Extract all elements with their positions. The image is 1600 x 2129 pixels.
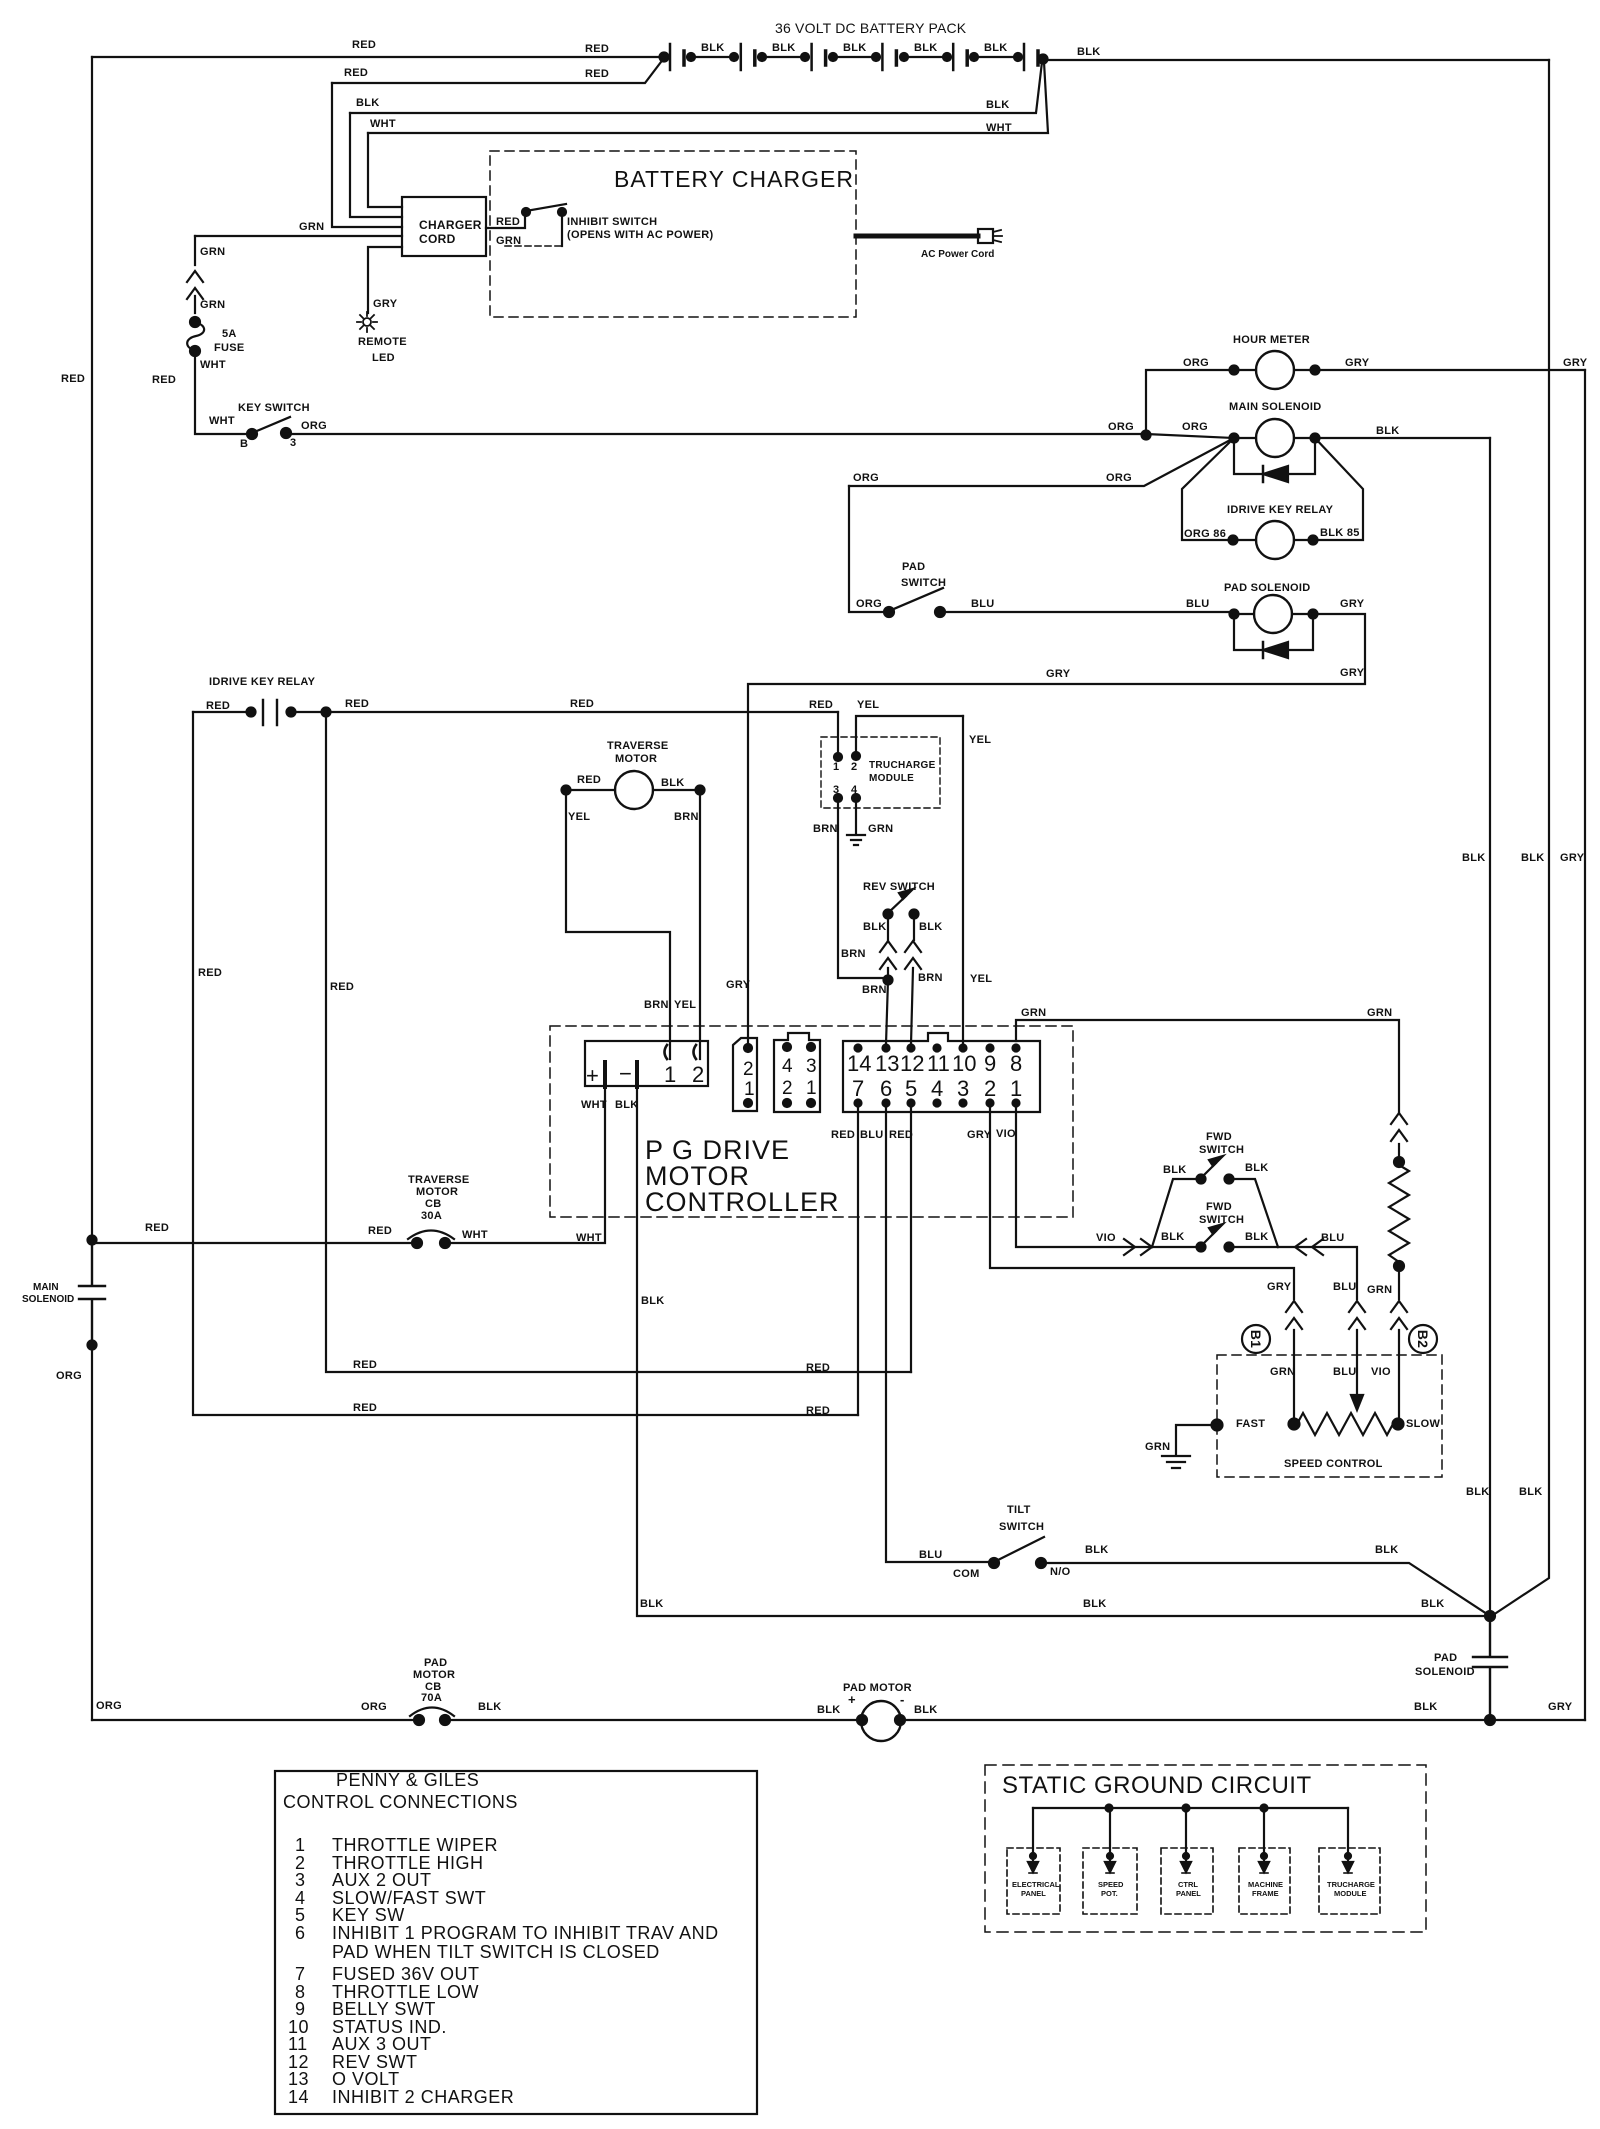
svg-text:RED: RED bbox=[152, 374, 176, 386]
svg-text:MOTOR: MOTOR bbox=[413, 1669, 455, 1681]
wire RED into charger cord bbox=[332, 83, 402, 227]
svg-text:MAIN: MAIN bbox=[33, 1282, 59, 1293]
svg-text:RED: RED bbox=[344, 67, 368, 79]
wire WHT charger feed bbox=[368, 62, 1048, 133]
svg-text:THROTTLE WIPER: THROTTLE WIPER bbox=[332, 1835, 498, 1855]
svg-text:YEL: YEL bbox=[970, 973, 992, 985]
svg-text:BLK: BLK bbox=[1245, 1162, 1269, 1174]
svg-text:FRAME: FRAME bbox=[1252, 1889, 1279, 1898]
svg-text:RED: RED bbox=[145, 1222, 169, 1234]
speed pot dashed box bbox=[1083, 1848, 1137, 1914]
svg-text:9: 9 bbox=[295, 1999, 306, 2019]
svg-text:BLK: BLK bbox=[1521, 852, 1545, 864]
wire left rev switch with connector chevrons bbox=[887, 914, 889, 980]
svg-text:BLK 85: BLK 85 bbox=[1320, 527, 1360, 539]
svg-text:ORG: ORG bbox=[853, 472, 879, 484]
svg-text:4: 4 bbox=[782, 1056, 793, 1077]
svg-text:GRY: GRY bbox=[1548, 1701, 1573, 1713]
wire WHT fuse to key switch bbox=[195, 351, 252, 434]
wire BLK main solenoid to right bbox=[1315, 437, 1490, 439]
wire BLU wiper into speed control bbox=[1356, 1330, 1358, 1398]
svg-text:GRN: GRN bbox=[1367, 1007, 1392, 1019]
svg-text:RED: RED bbox=[496, 216, 520, 228]
svg-text:GRY: GRY bbox=[1267, 1281, 1292, 1293]
svg-text:1: 1 bbox=[664, 1062, 676, 1087]
svg-text:RED: RED bbox=[345, 698, 369, 710]
svg-text:2: 2 bbox=[692, 1062, 704, 1087]
svg-text:BLK: BLK bbox=[661, 777, 685, 789]
svg-text:BLK: BLK bbox=[1519, 1486, 1543, 1498]
svg-text:TRAVERSE: TRAVERSE bbox=[607, 740, 668, 752]
wire GRN trucharge pin4 to ground bbox=[855, 798, 857, 834]
svg-text:RED: RED bbox=[206, 700, 230, 712]
pin bottom dots bbox=[855, 1100, 862, 1107]
svg-text:GRN: GRN bbox=[200, 246, 225, 258]
wire GRN pin8 to resistor chain bbox=[1016, 1020, 1399, 1112]
svg-text:7: 7 bbox=[295, 1964, 306, 1984]
svg-text:O VOLT: O VOLT bbox=[332, 2069, 400, 2089]
svg-text:GRN: GRN bbox=[1021, 1007, 1046, 1019]
svg-text:MACHINE: MACHINE bbox=[1248, 1880, 1283, 1889]
diode D2 pad solenoid bbox=[1234, 614, 1313, 650]
svg-text:2: 2 bbox=[743, 1059, 754, 1080]
svg-text:RED: RED bbox=[330, 981, 354, 993]
svg-text:GRY: GRY bbox=[1340, 667, 1365, 679]
svg-text:BLK: BLK bbox=[478, 1701, 502, 1713]
wire WHT into charger cord bbox=[368, 133, 402, 207]
svg-text:BLK: BLK bbox=[986, 99, 1010, 111]
svg-text:BLK: BLK bbox=[356, 97, 380, 109]
svg-text:GRN: GRN bbox=[868, 823, 893, 835]
svg-text:SPEED CONTROL: SPEED CONTROL bbox=[1284, 1458, 1383, 1470]
svg-text:RED: RED bbox=[806, 1362, 830, 1374]
ground drop electrical panel bbox=[1032, 1808, 1034, 1862]
B2 terminal circle bbox=[1409, 1325, 1437, 1353]
single connector 2/1 bbox=[733, 1038, 757, 1111]
svg-text:WHT: WHT bbox=[209, 415, 235, 427]
wire BRN traverse motor to controller pin2 bbox=[699, 790, 701, 1059]
svg-text:ORG 86: ORG 86 bbox=[1184, 528, 1226, 540]
wire GRY pad solenoid loop to connector bbox=[748, 614, 1365, 1044]
svg-text:IDRIVE KEY RELAY: IDRIVE KEY RELAY bbox=[209, 676, 316, 688]
inhibit switch bbox=[522, 208, 530, 216]
svg-text:5: 5 bbox=[905, 1076, 917, 1101]
svg-text:PAD: PAD bbox=[902, 561, 925, 573]
wire BLK battery jumper 4 bbox=[900, 53, 908, 61]
battery B6 plates bbox=[1023, 44, 1026, 70]
svg-text:BLK: BLK bbox=[772, 42, 796, 54]
svg-text:BLK: BLK bbox=[1414, 1701, 1438, 1713]
svg-text:INHIBIT SWITCH: INHIBIT SWITCH bbox=[567, 216, 657, 228]
ground drop ctrl panel bbox=[1185, 1808, 1187, 1862]
svg-text:YEL: YEL bbox=[568, 811, 590, 823]
svg-text:BLU: BLU bbox=[1186, 598, 1210, 610]
wire BLK from - pin down and right bbox=[637, 1087, 1490, 1616]
svg-text:BLK: BLK bbox=[1462, 852, 1486, 864]
speed control potentiometer bbox=[1289, 1419, 1300, 1430]
svg-text:GRN: GRN bbox=[1145, 1441, 1170, 1453]
svg-text:BLK: BLK bbox=[843, 42, 867, 54]
svg-text:HOUR METER: HOUR METER bbox=[1233, 334, 1310, 346]
svg-text:7: 7 bbox=[852, 1076, 864, 1101]
svg-text:GRN: GRN bbox=[200, 299, 225, 311]
svg-text:BRN: BRN bbox=[644, 999, 669, 1011]
svg-text:PAD SOLENOID: PAD SOLENOID bbox=[1224, 582, 1311, 594]
battery charger dashed box bbox=[490, 151, 856, 317]
svg-text:3: 3 bbox=[957, 1076, 969, 1101]
svg-text:TRAVERSE: TRAVERSE bbox=[408, 1174, 469, 1186]
svg-text:2: 2 bbox=[782, 1078, 793, 1099]
svg-text:FAST: FAST bbox=[1236, 1418, 1265, 1430]
svg-text:11: 11 bbox=[288, 2034, 308, 2054]
svg-text:RED: RED bbox=[585, 68, 609, 80]
wire BLK battery jumper 3 bbox=[829, 53, 837, 61]
svg-text:ORG: ORG bbox=[856, 598, 882, 610]
trucharge module dashed box (ground) bbox=[1319, 1848, 1380, 1914]
svg-text:CONTROL CONNECTIONS: CONTROL CONNECTIONS bbox=[283, 1792, 518, 1812]
svg-text:BLK: BLK bbox=[1085, 1544, 1109, 1556]
svg-text:BLU: BLU bbox=[971, 598, 995, 610]
svg-text:BLK: BLK bbox=[1163, 1164, 1187, 1176]
pin 1 receptacle bbox=[665, 1045, 668, 1059]
svg-text:RED: RED bbox=[353, 1402, 377, 1414]
wire ORG junction up to hour meter bbox=[1146, 370, 1234, 435]
svg-text:8: 8 bbox=[1010, 1051, 1022, 1076]
svg-text:ORG: ORG bbox=[1183, 357, 1209, 369]
svg-text:BLK: BLK bbox=[919, 921, 943, 933]
wire right rev switch to pin12 with chevrons bbox=[911, 914, 914, 1044]
svg-text:SOLENOID: SOLENOID bbox=[22, 1294, 74, 1305]
ground drop speed pot bbox=[1109, 1808, 1111, 1862]
svg-text:AUX 3 OUT: AUX 3 OUT bbox=[332, 2034, 432, 2054]
svg-text:B1: B1 bbox=[1248, 1330, 1264, 1349]
svg-text:BLK: BLK bbox=[914, 42, 938, 54]
svg-text:BLK: BLK bbox=[914, 1704, 938, 1716]
svg-text:ORG: ORG bbox=[361, 1701, 387, 1713]
wire GRN into speed control bbox=[1398, 1330, 1400, 1424]
svg-text:36 VOLT DC BATTERY PACK: 36 VOLT DC BATTERY PACK bbox=[775, 20, 967, 36]
wire BLK right border vertical bbox=[1490, 60, 1549, 1617]
svg-text:BRN: BRN bbox=[674, 811, 699, 823]
wire GRN down-left with connector chevrons bbox=[194, 236, 196, 313]
svg-text:B2: B2 bbox=[1415, 1330, 1431, 1349]
ground drop trucharge module bbox=[1347, 1808, 1349, 1862]
wire ORG bottom left bbox=[92, 1719, 419, 1721]
svg-text:BLK: BLK bbox=[984, 42, 1008, 54]
svg-text:BRN: BRN bbox=[918, 972, 943, 984]
trucharge pin 1 bbox=[834, 753, 842, 761]
wire ORG down to pad switch bbox=[849, 486, 889, 612]
svg-text:GRN: GRN bbox=[299, 221, 324, 233]
svg-text:FWD: FWD bbox=[1206, 1131, 1232, 1143]
svg-text:13: 13 bbox=[875, 1051, 899, 1076]
svg-text:PAD: PAD bbox=[424, 1657, 447, 1669]
wire GRN into charger cord bbox=[195, 235, 402, 237]
svg-text:2: 2 bbox=[851, 761, 857, 773]
node ORG junction bbox=[1142, 431, 1151, 440]
svg-text:INHIBIT 1 PROGRAM TO INHIBIT T: INHIBIT 1 PROGRAM TO INHIBIT TRAV AND bbox=[332, 1923, 719, 1943]
node battery + junction bbox=[660, 53, 669, 62]
svg-text:2: 2 bbox=[984, 1076, 996, 1101]
svg-text:CB: CB bbox=[425, 1198, 442, 1210]
power connector block bbox=[585, 1041, 708, 1086]
wire BLU from fwd switches with chevrons bbox=[1278, 1247, 1357, 1299]
svg-text:SWITCH: SWITCH bbox=[1199, 1144, 1244, 1156]
svg-text:13: 13 bbox=[288, 2069, 309, 2089]
wire RED inhibit switch pigtail bbox=[486, 213, 525, 228]
svg-text:SOLENOID: SOLENOID bbox=[1415, 1666, 1475, 1678]
wire GRY hour meter to right border bbox=[1315, 369, 1585, 371]
svg-text:−: − bbox=[619, 1061, 632, 1086]
wire GRY bottom right corner bbox=[1490, 1719, 1585, 1721]
svg-text:RED: RED bbox=[831, 1129, 855, 1141]
svg-text:BLK: BLK bbox=[641, 1295, 665, 1307]
svg-text:1: 1 bbox=[744, 1079, 755, 1100]
svg-text:+: + bbox=[586, 1063, 599, 1088]
wire ORG left border to bottom bbox=[91, 1345, 93, 1720]
svg-text:WHT: WHT bbox=[576, 1232, 602, 1244]
svg-text:WHT: WHT bbox=[370, 118, 396, 130]
node battery - terminal bbox=[1039, 55, 1048, 64]
svg-text:ORG: ORG bbox=[96, 1700, 122, 1712]
svg-text:1: 1 bbox=[833, 761, 839, 773]
svg-text:RED: RED bbox=[806, 1405, 830, 1417]
wire BLU pad switch to pad solenoid bbox=[940, 612, 1234, 614]
svg-text:WHT: WHT bbox=[581, 1099, 607, 1111]
svg-text:ORG: ORG bbox=[1108, 421, 1134, 433]
svg-text:SWITCH: SWITCH bbox=[999, 1521, 1044, 1533]
svg-text:SPEED: SPEED bbox=[1098, 1880, 1124, 1889]
wire BLK battery jumper 2 bbox=[758, 53, 766, 61]
svg-text:11: 11 bbox=[927, 1051, 950, 1076]
svg-text:CORD: CORD bbox=[419, 232, 456, 246]
node speed control chassis bbox=[1212, 1420, 1223, 1431]
wire GRN to ground bbox=[1176, 1425, 1217, 1455]
svg-text:6: 6 bbox=[295, 1923, 306, 1943]
svg-text:(OPENS WITH AC POWER): (OPENS WITH AC POWER) bbox=[567, 229, 713, 241]
svg-text:CHARGER: CHARGER bbox=[419, 218, 482, 232]
svg-text:1: 1 bbox=[806, 1078, 817, 1099]
svg-text:14: 14 bbox=[847, 1051, 871, 1076]
svg-text:INHIBIT 2 CHARGER: INHIBIT 2 CHARGER bbox=[332, 2087, 514, 2107]
svg-text:BATTERY CHARGER: BATTERY CHARGER bbox=[614, 166, 854, 192]
wire GRN resistor to speed control with chevrons bbox=[1398, 1266, 1400, 1299]
wire YEL vertical to pin10 bbox=[962, 716, 964, 1044]
PG drive motor controller dashed box bbox=[550, 1026, 1073, 1217]
B1 terminal circle bbox=[1242, 1325, 1270, 1353]
svg-text:3: 3 bbox=[295, 1870, 306, 1890]
svg-text:FUSE: FUSE bbox=[214, 342, 245, 354]
wire RED charger feed bbox=[332, 58, 664, 83]
wire BLK into charger cord bbox=[350, 113, 402, 217]
svg-text:BLK: BLK bbox=[1376, 425, 1400, 437]
connector chevrons GRY BLU GRN bbox=[1286, 1301, 1302, 1329]
wire RED CB to main solenoid top bbox=[92, 1242, 417, 1244]
svg-text:BLK: BLK bbox=[1466, 1486, 1490, 1498]
svg-text:KEY SW: KEY SW bbox=[332, 1905, 405, 1925]
svg-text:REV SWITCH: REV SWITCH bbox=[863, 881, 935, 893]
node main solenoid top bbox=[88, 1236, 97, 1245]
wire RED into trucharge pin1 bbox=[837, 712, 839, 753]
svg-text:BLK: BLK bbox=[1421, 1598, 1445, 1610]
svg-text:POT.: POT. bbox=[1101, 1889, 1118, 1898]
svg-text:ELECTRICAL: ELECTRICAL bbox=[1012, 1880, 1060, 1889]
svg-text:ORG: ORG bbox=[1106, 472, 1132, 484]
svg-text:COM: COM bbox=[953, 1568, 980, 1580]
wire BRN junction to pin13 bbox=[886, 980, 888, 1044]
svg-text:9: 9 bbox=[984, 1051, 996, 1076]
svg-text:BRN: BRN bbox=[841, 948, 866, 960]
svg-text:RED: RED bbox=[61, 373, 85, 385]
svg-text:RED: RED bbox=[352, 39, 376, 51]
svg-text:PAD: PAD bbox=[1434, 1652, 1457, 1664]
svg-text:GRY: GRY bbox=[1345, 357, 1370, 369]
wire BLK CB to pad motor bbox=[445, 1719, 862, 1721]
wire ORG key switch to solenoid row bbox=[286, 434, 1234, 438]
wire BLK vertical to pad solenoid junction bbox=[1489, 438, 1491, 1617]
node relay output junction bbox=[322, 708, 331, 717]
battery B4 plates bbox=[881, 44, 884, 70]
wire ground bus bbox=[1033, 1807, 1348, 1809]
AC power cord bbox=[856, 234, 978, 239]
node BRN junction bbox=[884, 976, 893, 985]
wire GRY pin2 to speed control bbox=[990, 1103, 1294, 1299]
svg-text:12: 12 bbox=[900, 1051, 924, 1076]
svg-text:BRN: BRN bbox=[862, 984, 887, 996]
ground at speed control bbox=[1162, 1456, 1190, 1468]
svg-text:GRY: GRY bbox=[1560, 852, 1585, 864]
wire RED vertical to pin5 feed bbox=[326, 712, 911, 1372]
svg-text:GRN: GRN bbox=[1367, 1284, 1392, 1296]
wire GRY right border vertical bbox=[1584, 370, 1586, 1720]
wire GRY into speed control bbox=[1293, 1330, 1295, 1424]
svg-text:AUX 2 OUT: AUX 2 OUT bbox=[332, 1870, 432, 1890]
penny & giles legend box bbox=[275, 1771, 757, 2114]
svg-text:GRN: GRN bbox=[1270, 1366, 1295, 1378]
svg-text:BRN: BRN bbox=[813, 823, 838, 835]
node bottom junction bbox=[1485, 1715, 1495, 1725]
svg-text:BLK: BLK bbox=[615, 1099, 639, 1111]
svg-text:BLK: BLK bbox=[640, 1598, 664, 1610]
svg-text:4: 4 bbox=[931, 1076, 943, 1101]
wire BLK battery negative to right border bbox=[1045, 59, 1549, 61]
double connector 4/3 bbox=[774, 1033, 820, 1112]
wire BLU pin6 to tilt switch bbox=[886, 1103, 994, 1562]
svg-text:BLK: BLK bbox=[1077, 46, 1101, 58]
wire BLK battery jumper 5 bbox=[970, 53, 978, 61]
svg-text:AC Power Cord: AC Power Cord bbox=[921, 249, 994, 260]
svg-text:GRY: GRY bbox=[967, 1129, 992, 1141]
svg-text:ORG: ORG bbox=[56, 1370, 82, 1382]
wire RED pin5 down-left bbox=[910, 1103, 912, 1372]
battery B3 plates bbox=[810, 44, 813, 70]
battery B1 plates bbox=[669, 44, 672, 70]
battery B2 plates bbox=[740, 44, 743, 70]
svg-text:PANEL: PANEL bbox=[1176, 1889, 1201, 1898]
trucharge module dashed box bbox=[821, 737, 940, 808]
battery B5 plates bbox=[952, 44, 955, 70]
svg-text:RED: RED bbox=[353, 1359, 377, 1371]
pin 2 receptacle bbox=[694, 1045, 697, 1059]
svg-text:FUSED 36V OUT: FUSED 36V OUT bbox=[332, 1964, 480, 1984]
svg-text:ORG: ORG bbox=[1182, 421, 1208, 433]
svg-text:RED: RED bbox=[809, 699, 833, 711]
svg-text:TILT: TILT bbox=[1007, 1504, 1031, 1516]
svg-text:1: 1 bbox=[295, 1835, 306, 1855]
svg-text:MODULE: MODULE bbox=[1334, 1889, 1367, 1898]
svg-text:VIO: VIO bbox=[1096, 1232, 1116, 1244]
svg-text:BLK: BLK bbox=[817, 1704, 841, 1716]
svg-text:RED: RED bbox=[198, 967, 222, 979]
svg-text:MOTOR: MOTOR bbox=[615, 753, 657, 765]
svg-text:10: 10 bbox=[952, 1051, 976, 1076]
wire BLK charger feed bbox=[350, 62, 1042, 113]
svg-text:GRY: GRY bbox=[1046, 668, 1071, 680]
svg-text:30A: 30A bbox=[421, 1210, 442, 1222]
wire BLK tilt switch to junction bbox=[1041, 1563, 1490, 1616]
svg-text:YEL: YEL bbox=[674, 999, 696, 1011]
pin top dots bbox=[855, 1045, 862, 1052]
svg-text:5: 5 bbox=[295, 1905, 306, 1925]
svg-text:N/O: N/O bbox=[1050, 1566, 1071, 1578]
wire RED pin7 down-left bbox=[857, 1103, 859, 1415]
svg-text:SWITCH: SWITCH bbox=[901, 577, 946, 589]
svg-text:WHT: WHT bbox=[986, 122, 1012, 134]
svg-text:BLK: BLK bbox=[701, 42, 725, 54]
svg-text:CONTROLLER: CONTROLLER bbox=[645, 1187, 840, 1217]
svg-text:ORG: ORG bbox=[301, 420, 327, 432]
wire RED vertical to pin7 feed bbox=[193, 712, 858, 1415]
svg-text:BLK: BLK bbox=[1083, 1598, 1107, 1610]
svg-text:BLU: BLU bbox=[919, 1549, 943, 1561]
svg-text:RED: RED bbox=[889, 1129, 913, 1141]
svg-text:VIO: VIO bbox=[996, 1128, 1016, 1140]
svg-text:BLU: BLU bbox=[1333, 1281, 1357, 1293]
wire WHT from + pin to traverse CB bbox=[445, 1087, 605, 1243]
ground drop machine frame bbox=[1263, 1808, 1265, 1862]
node main solenoid bottom bbox=[88, 1341, 97, 1350]
diode D1 main solenoid bbox=[1234, 438, 1315, 474]
wire GRN dashed to inhibit switch bbox=[505, 245, 562, 247]
wire RED top horizontal to battery bbox=[92, 56, 664, 58]
svg-text:KEY SWITCH: KEY SWITCH bbox=[238, 402, 310, 414]
svg-text:1: 1 bbox=[1010, 1076, 1022, 1101]
svg-text:-: - bbox=[900, 1692, 905, 1707]
static ground circuit dashed box bbox=[985, 1765, 1426, 1932]
svg-text:14: 14 bbox=[288, 2087, 309, 2107]
svg-text:RED: RED bbox=[570, 698, 594, 710]
svg-text:BELLY SWT: BELLY SWT bbox=[332, 1999, 436, 2019]
svg-text:YEL: YEL bbox=[857, 699, 879, 711]
wire BRN trucharge pin3 down bbox=[838, 798, 888, 978]
svg-text:BLK: BLK bbox=[1375, 1544, 1399, 1556]
svg-text:RED: RED bbox=[368, 1225, 392, 1237]
resistor R1 vertical GRN chain bbox=[1398, 1144, 1400, 1160]
svg-text:PANEL: PANEL bbox=[1021, 1889, 1046, 1898]
svg-text:MODULE: MODULE bbox=[869, 773, 914, 784]
wire RED relay to trucharge bbox=[326, 711, 838, 713]
ctrl panel dashed box bbox=[1161, 1848, 1213, 1914]
svg-text:B: B bbox=[240, 438, 248, 450]
ground at trucharge bbox=[847, 835, 865, 845]
wire YEL trucharge pin2 riser bbox=[856, 716, 963, 752]
svg-text:BLU: BLU bbox=[1333, 1366, 1357, 1378]
svg-text:LED: LED bbox=[372, 352, 395, 364]
svg-text:SLOW: SLOW bbox=[1406, 1418, 1441, 1430]
svg-text:TRUCHARGE: TRUCHARGE bbox=[1327, 1880, 1375, 1889]
svg-text:BLU: BLU bbox=[860, 1129, 884, 1141]
wire VIO pin1 to fwd switches bbox=[1016, 1103, 1152, 1247]
